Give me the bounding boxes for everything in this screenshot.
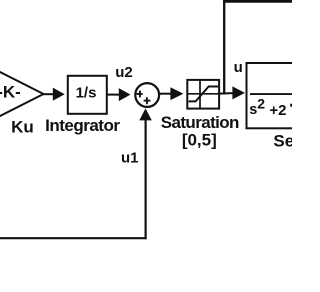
block name label Se... (clipped) (273, 131, 320, 150)
transfer function block (clipped at right edge) (247, 63, 307, 128)
feedback wire u1 horizontal segment (0, 237, 147, 239)
wire Integrator to sum junction (107, 94, 120, 96)
svg-text:[0,5]: [0,5] (182, 131, 217, 150)
signal label u (234, 59, 243, 76)
signal label u2 (115, 64, 133, 81)
svg-text:+2: +2 (269, 102, 286, 119)
wire gain Ku to Integrator (43, 93, 54, 95)
sum junction (circle) (135, 83, 159, 107)
block parameter label [0,5] (182, 131, 217, 150)
svg-text:1/s: 1/s (76, 85, 97, 102)
arrowhead into Integrator (53, 88, 65, 101)
integrator block 1/s (68, 76, 107, 114)
svg-text:Saturation: Saturation (161, 113, 239, 132)
saturation block (187, 80, 219, 109)
plus sign for bottom input (144, 97, 151, 104)
svg-text:Servo: Servo (273, 131, 292, 150)
svg-text:Ku: Ku (11, 118, 34, 137)
gain value label -K- (0, 83, 21, 102)
gain block Ku (triangle, clipped at left edge) (0, 69, 44, 119)
arrowhead into Saturation (170, 87, 183, 100)
svg-text:Integrator: Integrator (45, 116, 120, 135)
svg-text:u1: u1 (121, 150, 139, 167)
svg-text:2: 2 (257, 96, 265, 112)
arrowhead into sum junction bottom (139, 108, 152, 120)
arrowhead into sum junction (119, 88, 131, 101)
svg-text:s: s (249, 102, 257, 118)
feedback wire u1 vertical segment (145, 120, 147, 239)
block name label Integrator (45, 116, 120, 135)
branch wire up from node to top edge (223, 1, 292, 94)
wire sum junction to Saturation (160, 93, 172, 95)
block name label Ku (11, 118, 34, 137)
svg-text:u2: u2 (115, 64, 133, 81)
arrowhead into transfer function block (232, 86, 245, 99)
signal label u1 (121, 150, 139, 167)
block name label Saturation (161, 113, 239, 132)
svg-text:-K-: -K- (0, 83, 21, 102)
wire Saturation to transfer function block (219, 92, 233, 95)
plus sign for left input (137, 91, 143, 98)
svg-text:u: u (234, 59, 243, 76)
